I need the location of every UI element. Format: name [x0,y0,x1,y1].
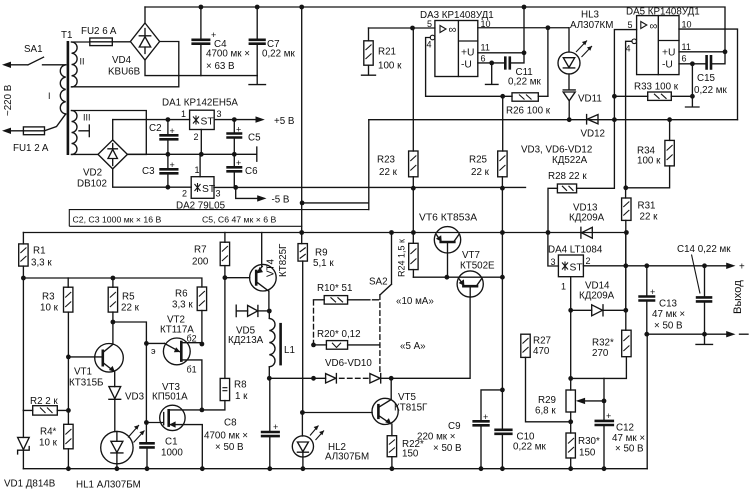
diode VD13 [569,203,605,239]
svg-text:× 50 В: × 50 В [433,443,462,454]
resistor R24 1.5k [397,239,419,277]
svg-text:470: 470 [533,346,550,357]
svg-text:T1: T1 [61,30,72,41]
transistor VT5 KT815G [302,378,428,435]
diode VD14 KD209A [571,281,626,316]
resistor R25 22k [469,96,507,178]
diode row VD6-VD10 [269,297,470,383]
svg-text:VD2: VD2 [83,168,102,179]
svg-text:C2: C2 [149,123,162,134]
svg-text:+U: +U [662,48,675,59]
note box C2..C6 values [69,210,369,227]
capacitor C10 [494,430,546,453]
svg-text:4700 мк ×: 4700 мк × [204,431,248,442]
transformer T1 winding I [60,65,65,114]
svg-text:5,1 к: 5,1 к [313,258,334,269]
svg-text:II: II [80,57,85,67]
svg-text:АЛ307БМ: АЛ307БМ [325,452,369,463]
svg-text:DA1 КР142ЕН5А: DA1 КР142ЕН5А [162,98,238,109]
wire DA5 pin11 [679,51,725,53]
svg-text:~220 В: ~220 В [3,84,14,116]
svg-text:1 к: 1 к [235,391,248,402]
wire VD2 top to +raw row [112,120,114,140]
svg-text:C5: C5 [248,133,261,144]
svg-text:L1: L1 [284,345,295,356]
wire R3 bottom down left column [67,312,69,424]
svg-text:3: 3 [216,189,221,199]
svg-text:11: 11 [481,43,490,53]
svg-text:КД209А: КД209А [569,213,605,224]
wire VD12 row left end down to long vertical [302,120,369,210]
capacitor C3 [142,154,179,187]
svg-text:∞: ∞ [650,21,658,33]
capacitor C9 [417,390,502,469]
wire VD2 bottom to -raw row [113,169,192,187]
ground at R33 right [686,96,700,107]
svg-text:VD3: VD3 [125,392,145,403]
svg-text:R28 22 к: R28 22 к [548,171,587,182]
capacitor C13 [638,266,685,334]
svg-text:200: 200 [192,257,209,268]
wire VD4 bottom row [145,60,257,76]
wire R23 bottom to R24 [412,177,414,244]
svg-text:4700 мк ×: 4700 мк × [206,49,250,60]
svg-text:+: + [606,411,611,421]
svg-text:2: 2 [182,189,187,199]
svg-text:3,3 к: 3,3 к [31,258,52,269]
wire DA5 pin6 [679,64,707,97]
LED HL1 AL307BM [76,425,145,491]
resistor R7 200 [192,233,230,379]
bridge rectifier VD2 DB102 [77,140,127,190]
regulator DA2 79L05 [176,165,226,212]
svg-text:6,8 к: 6,8 к [535,406,556,417]
resistor R23 22k [377,28,418,178]
svg-text:ST: ST [201,117,215,128]
wire R31/R32 junction to output row [625,233,627,311]
svg-text:C9: C9 [448,421,461,432]
capacitor C6 [226,154,258,187]
-5V output arrow [236,187,290,205]
svg-text:«5 А»: «5 А» [400,341,426,352]
capacitor C14 [677,244,731,334]
svg-text:150: 150 [579,448,596,459]
svg-text:VT5: VT5 [398,392,417,403]
wire winding III top to VD2 right corner [72,111,147,155]
svg-text:10: 10 [682,20,692,30]
svg-text:2: 2 [194,132,199,142]
svg-text:SA2: SA2 [369,277,388,288]
resistor R22* 150 [387,436,424,469]
svg-text:220 мк ×: 220 мк × [417,432,456,443]
wire VT1 base [68,356,102,358]
ground row [127,147,256,161]
svg-text:FU1 2 A: FU1 2 A [13,143,49,154]
svg-text:+: + [236,125,241,135]
LED HL3 AL307KM [558,10,613,75]
svg-text:× 50 В: × 50 В [215,442,244,453]
resistor R32* 270 [571,330,631,378]
capacitor C5 [226,120,261,155]
svg-text:47 мк ×: 47 мк × [612,433,645,444]
svg-text:-U: -U [662,60,673,71]
svg-text:I: I [48,91,51,101]
wire R24 bottom to VT7 base/collector row [413,276,502,278]
svg-text:× 50 В: × 50 В [654,321,683,332]
svg-text:6: 6 [481,54,486,64]
ground at R21 [362,65,376,75]
svg-text:0,22 мк: 0,22 мк [513,442,547,453]
minus output row [647,333,727,335]
wire VD4 top to rail [144,7,146,23]
wire DA3 pin10 [478,28,569,97]
wire R5 node to VT2 emitter and VT3 gate [113,322,146,443]
svg-text:HL1 АЛ307БМ: HL1 АЛ307БМ [76,480,141,491]
svg-text:HL3: HL3 [581,10,600,21]
wire DA4 pin3 [548,233,559,267]
wire R1 bottom column to R2/VD1 [22,278,24,410]
resistor R10* 51 [314,283,379,345]
svg-text:C14 0,22 мк: C14 0,22 мк [677,244,731,255]
svg-text:VD11: VD11 [578,94,602,105]
svg-text:VD6-VD10: VD6-VD10 [325,358,372,369]
wire DA4 pin1 down [570,277,572,390]
wire DA5 pin10 to right edge down [679,29,738,120]
resistor R34 100k [637,120,674,167]
svg-text:б2: б2 [187,334,197,344]
capacitor C8 [204,378,280,468]
svg-text:0,22 мк: 0,22 мк [508,77,542,88]
ground at C14 [696,334,713,344]
wire DA3 pin11 to rail [478,7,524,53]
svg-text:3,3 к: 3,3 к [172,300,193,311]
svg-text:5: 5 [628,20,633,30]
top rail [145,7,725,52]
svg-text:+: + [483,412,488,422]
svg-text:1000: 1000 [161,448,183,459]
resistor R5 22k [108,278,139,344]
LED HL2 AL307BM [292,413,369,469]
winding III center tap [79,125,89,137]
svg-text:КД209А: КД209А [579,291,615,302]
svg-text:R6: R6 [175,289,188,300]
svg-text:22 к: 22 к [121,303,140,314]
svg-text:100 к: 100 к [378,61,402,72]
wire VD4 AC loop to winding II bottom [72,42,179,87]
svg-text:C6: C6 [245,166,258,177]
svg-text:R4*: R4* [40,427,57,438]
svg-text:R7: R7 [194,245,207,256]
capacitor C15 [694,52,728,96]
resistor R27 470 [521,334,571,422]
svg-text:3: 3 [217,109,222,119]
svg-text:1: 1 [195,165,200,175]
transistor VT3 KP501A [146,382,225,469]
svg-text:× 50 В: × 50 В [615,444,644,455]
fuse FU2 6A [81,26,130,46]
svg-text:R24 1,5 к: R24 1,5 к [397,239,407,277]
svg-text:5: 5 [427,19,432,29]
svg-text:VD4: VD4 [112,55,132,66]
svg-text:+5 В: +5 В [274,116,295,127]
resistor R28 22k [548,171,587,233]
wire DA3 pin4 feedback [426,38,512,97]
transistor VT4 KT825G [250,233,289,312]
svg-text:КТ815Г: КТ815Г [394,403,428,414]
wire DA3 pin6 [478,62,506,64]
svg-text:Выход: Выход [732,280,744,314]
svg-text:VT7: VT7 [462,250,480,261]
svg-text:R31: R31 [638,201,656,212]
wire DA2 pin1 to ground row [199,154,201,176]
resistor R31 22k [622,198,659,223]
svg-text:0,22 мк: 0,22 мк [262,49,296,60]
ground at C7 [249,76,266,85]
svg-text:4: 4 [427,40,432,50]
svg-text:VT4: VT4 [266,258,277,277]
wire R31 bottom through rows to R32 [625,220,627,330]
wire winding II top to FU2 [72,41,90,43]
transistor VT2 KT117A [151,315,202,410]
svg-text:× 63 В: × 63 В [206,61,235,72]
resistor R9 5.1k [298,233,334,413]
diode VD12 [581,115,606,140]
svg-text:III: III [83,113,91,123]
resistor R8 1k [220,378,248,402]
resistor R2 2k [23,396,68,415]
svg-text:10 к: 10 к [39,438,58,449]
capacitor C12 [595,378,646,468]
svg-text:C5, C6 47 мк × 6 В: C5, C6 47 мк × 6 В [202,215,276,225]
ground at DA3 pin6 [486,63,499,85]
+raw row to DA1 [113,119,190,121]
regulator DA1 KR142EN5A [162,98,238,143]
resistor R33 100k [614,82,692,101]
svg-text:VT6 КТ853А: VT6 КТ853А [419,213,477,224]
+5V output arrow [214,116,295,127]
capacitor C11 [505,53,541,88]
bridge rectifier VD4 KBU6B [108,23,160,78]
svg-text:R3: R3 [42,292,55,303]
svg-text:ST: ST [570,263,584,274]
svg-text:270: 270 [592,348,609,359]
svg-text:б1: б1 [187,365,197,375]
switch SA2 [369,233,392,374]
row R1/R3/R5/R6 tops [23,278,202,287]
transistor VT7 KT502E [457,250,495,297]
transformer T1 winding II [72,42,78,87]
svg-text:R30*: R30* [578,436,600,447]
zener VD1 D814V [4,410,56,489]
svg-text:11: 11 [682,42,691,52]
bottom rail [23,468,647,470]
svg-text:10 к: 10 к [40,303,59,314]
svg-text:АЛ307КМ: АЛ307КМ [570,20,613,31]
wire DA4 pin2 output row [583,265,727,267]
capacitor C2 [149,120,179,155]
svg-text:э: э [151,346,156,356]
fuse FU1 2A [2,114,66,154]
svg-text:R9: R9 [315,248,328,259]
transistor VT6 KT853A [419,213,477,278]
wire DA5 pin4 down to R31 [626,41,632,198]
svg-text:C8: C8 [224,418,237,429]
svg-text:C12: C12 [616,423,634,434]
diode VD11 [563,74,602,120]
op-amp DA5 KR1408UD1 [626,7,700,75]
wire C13 bottom to bottom rail [646,334,648,469]
svg-text:150: 150 [402,449,419,460]
long vertical from top rail [301,7,303,233]
capacitor C7 [249,7,296,76]
svg-text:VD12: VD12 [581,129,606,140]
capacitor C1 [139,437,183,469]
svg-text:КТ315Б: КТ315Б [69,378,103,389]
svg-text:47 мк ×: 47 мк × [652,309,685,320]
resistor R20* 0.12 [314,329,380,349]
potentiometer R29 6.8k [535,390,604,433]
svg-text:VD1 Д814В: VD1 Д814В [4,479,56,490]
-5V row [214,186,526,188]
regulator DA4 LT1084 [548,245,603,292]
svg-text:КП501А: КП501А [152,392,188,403]
wire DA5 pin5 down to R33/VD12 row and R28 [577,30,637,189]
resistor R30* 150 [566,433,600,469]
svg-text:R33 100 к: R33 100 к [634,82,679,93]
svg-text:6: 6 [682,54,687,64]
svg-text:R2 2 к: R2 2 к [30,396,58,407]
svg-text:FU2 6 A: FU2 6 A [81,26,117,37]
svg-text:R20* 0,12: R20* 0,12 [317,329,361,340]
svg-text:+: + [170,126,175,136]
svg-text:R10* 51: R10* 51 [317,283,352,294]
svg-text:DB102: DB102 [77,179,107,190]
svg-text:+: + [236,158,241,168]
svg-text:R27: R27 [533,336,551,347]
svg-text:R8: R8 [234,380,247,391]
svg-text:КТ502Е: КТ502Е [460,261,495,272]
svg-text:R32*: R32* [592,338,614,349]
VD12 feedback row [369,119,738,121]
wire R34 bottom to DA5 pin4 line [626,166,670,188]
resistor R3 10k [40,278,73,314]
resistor R21 100k [364,28,402,72]
inductor L1 [269,311,295,378]
svg-text:100 к: 100 к [637,156,661,167]
svg-text:0,22 мк: 0,22 мк [694,85,728,96]
svg-text:2: 2 [586,256,591,266]
svg-text:C2, C3 1000 мк × 16 В: C2, C3 1000 мк × 16 В [73,215,162,225]
svg-text:-5 В: -5 В [272,195,290,206]
svg-text:C13: C13 [659,299,678,310]
svg-text:R26 100 к: R26 100 к [506,106,551,117]
svg-text:R23: R23 [377,155,396,166]
svg-text:VD3, VD6-VD12: VD3, VD6-VD12 [521,145,592,156]
svg-text:КД522А: КД522А [552,155,588,166]
svg-text:+: + [273,422,278,432]
wire winding III bottom to VD2 left corner [72,153,99,155]
svg-text:-U: -U [461,60,472,71]
op-amp DA3 KR1408UD1 [420,10,494,77]
svg-text:22 к: 22 к [379,167,398,178]
svg-text:C1: C1 [165,437,178,448]
resistor R4* 10k [39,424,73,468]
resistor R26 100k [506,93,551,117]
svg-text:1: 1 [561,282,566,292]
svg-text:DA5 КР1408УД1: DA5 КР1408УД1 [626,7,700,18]
resistor R1 3.3k [19,233,53,279]
svg-text:22 к: 22 к [640,212,659,223]
svg-text:KBU6B: KBU6B [108,67,141,78]
wire DA1 pin2 to ground row [200,130,202,155]
svg-text:+: + [739,262,745,273]
svg-text:C15: C15 [697,73,716,84]
transformer T1 core [67,41,70,155]
diode VD5 KD213A [228,305,269,346]
svg-text:SA1: SA1 [24,44,43,55]
svg-text:+U: +U [461,48,474,59]
svg-text:C3: C3 [142,166,155,177]
wire R25 bottom long vertical to bottom row [501,177,503,469]
resistor R6 3.3k [172,287,207,344]
wire R21 to DA3 pin5 [369,27,435,29]
svg-text:R5: R5 [122,292,135,303]
main horizontal row y=232.5 [23,232,626,234]
svg-text:1: 1 [181,109,186,119]
svg-text:+: + [650,287,655,297]
capacitor C4 [191,7,250,76]
transistor VT1 KT315B [69,344,123,389]
switch SA1 [2,44,66,68]
svg-text:R1: R1 [33,246,46,257]
svg-text:R29: R29 [538,395,556,406]
svg-text:ST: ST [202,184,216,195]
svg-text:КТ825Г: КТ825Г [278,243,289,277]
svg-text:+: + [170,160,175,170]
diode VD3 [109,387,145,432]
svg-text:∞: ∞ [449,24,457,36]
svg-text:22 к: 22 к [471,167,490,178]
svg-text:R25: R25 [469,155,488,166]
svg-text:VT1: VT1 [74,367,92,378]
svg-text:«10 мА»: «10 мА» [396,296,434,307]
svg-text:R21: R21 [378,47,396,58]
svg-text:КД213А: КД213А [228,335,264,346]
svg-text:DA4 LT1084: DA4 LT1084 [548,245,603,256]
wire R7/VT4 base [225,277,250,279]
transformer T1 winding III [72,111,78,155]
